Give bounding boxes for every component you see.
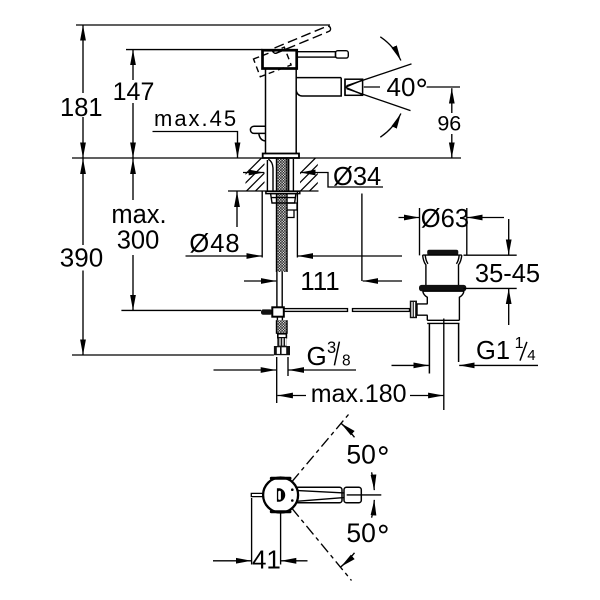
aerator axis lines	[364, 86, 460, 88]
50 arc lower	[341, 553, 355, 567]
waste rod branch	[417, 304, 428, 315]
svg-text:181: 181	[60, 94, 103, 122]
braided hose below nut	[277, 194, 288, 272]
hose end ref line	[72, 354, 274, 356]
hose connector below clamp	[277, 317, 282, 321]
111 extension line	[361, 194, 363, 282]
handle cap	[263, 50, 297, 68]
faucet base	[263, 154, 299, 159]
washer under deck	[266, 191, 300, 193]
svg-text:147: 147	[113, 78, 155, 106]
top view center line	[347, 494, 382, 496]
svg-text:max.45: max.45	[154, 106, 238, 131]
waste bottom rings	[427, 320, 459, 323]
dim G1 1/4	[392, 364, 429, 366]
horizontal pull rod right part	[353, 309, 410, 312]
faucet body left edge	[265, 69, 267, 154]
braided hose lower segment	[277, 320, 288, 334]
svg-text:50: 50	[346, 518, 375, 548]
spout	[296, 78, 341, 96]
waste rod knob	[410, 301, 417, 319]
dim 147	[132, 50, 134, 80]
top view body circle	[263, 478, 298, 513]
dim Ø48	[186, 255, 263, 257]
dim 96	[451, 88, 453, 113]
svg-text:4: 4	[527, 347, 535, 364]
rod clamp knob left	[261, 309, 272, 314]
reference line top (max raised lever height)	[76, 24, 330, 26]
horizontal pull rod left part	[284, 309, 348, 312]
hose thread adapter	[277, 338, 286, 346]
max300 ref line	[121, 309, 261, 311]
reference line handle top	[126, 49, 263, 51]
Ø48 extension lines	[262, 192, 297, 258]
top view lever arm taper	[298, 491, 344, 502]
top view spout	[297, 487, 342, 502]
svg-text:G: G	[307, 341, 327, 371]
svg-text:35-45: 35-45	[475, 260, 540, 288]
deck top line	[72, 157, 461, 159]
svg-text:50: 50	[346, 440, 375, 470]
braided hose in deck hole	[277, 158, 288, 190]
shank rod guide in hole	[267, 159, 273, 190]
deck bottom line	[228, 190, 319, 192]
dim max45 lower arrow	[236, 192, 238, 228]
top view cap chords	[271, 478, 290, 512]
aerator	[345, 79, 363, 95]
svg-text:Ø63: Ø63	[421, 205, 469, 233]
svg-text:111: 111	[300, 266, 340, 296]
waste center extension line	[443, 319, 445, 411]
dim max300	[132, 159, 134, 201]
waste tailpipe	[429, 323, 458, 373]
dim Ø63	[399, 217, 420, 219]
top view D slot	[278, 491, 281, 500]
svg-text:max.: max.	[111, 201, 166, 229]
svg-text:Ø34: Ø34	[333, 163, 381, 191]
G3/8 hex nut	[274, 346, 290, 355]
dim 35-45	[508, 219, 510, 255]
rod clamp block	[272, 307, 284, 316]
svg-text:1: 1	[515, 335, 524, 352]
waste rubber seal	[419, 285, 466, 291]
shank tube right in hole	[289, 159, 294, 191]
lever horizontal	[297, 52, 336, 57]
svg-text:390: 390	[60, 243, 103, 273]
aerator joint	[344, 79, 346, 95]
dim 111	[244, 280, 276, 282]
dim max45 leader	[153, 132, 238, 159]
top view rod stub left	[251, 493, 263, 496]
40 degree arc lower	[380, 114, 401, 138]
svg-text:Ø48: Ø48	[189, 230, 240, 258]
svg-text:96: 96	[437, 112, 461, 136]
Ø63 extension lines	[420, 208, 467, 255]
dim 390	[82, 159, 84, 246]
waste lower bowl	[423, 291, 464, 320]
spray line upper	[347, 64, 412, 86]
svg-text:40: 40	[387, 72, 416, 102]
svg-text:G1: G1	[476, 337, 510, 365]
dashed ray lower 50	[292, 508, 352, 580]
aerator cone lines	[345, 80, 362, 95]
outlet fitting	[288, 203, 298, 218]
top view lever D	[277, 488, 285, 502]
40 degree arc upper	[380, 37, 401, 61]
dim 181	[82, 25, 84, 93]
waste flange	[423, 255, 462, 285]
lever grip tip	[336, 51, 349, 58]
svg-text:3: 3	[327, 339, 336, 357]
deck hatching right	[282, 158, 343, 192]
dim G3/8	[214, 369, 277, 371]
top view dots	[291, 488, 294, 491]
svg-text:300: 300	[117, 227, 160, 255]
dim 41	[213, 560, 251, 562]
svg-text:41: 41	[252, 545, 281, 575]
pop-up waste stopper cap	[427, 250, 458, 255]
G3/8 extension lines	[277, 357, 288, 403]
dashed ray upper 50	[292, 415, 349, 482]
dim max180	[277, 395, 306, 397]
dim Ø34	[243, 172, 264, 174]
41 extension lines	[252, 498, 281, 565]
pop-up vertical rod	[277, 272, 282, 307]
spray line lower	[347, 89, 411, 111]
deck hatching left	[228, 158, 289, 192]
hose ferrule	[278, 334, 287, 338]
50 arc upper	[341, 423, 355, 437]
dashed handle cap (raised position)	[254, 47, 292, 77]
35-45 extension lines	[464, 255, 517, 288]
svg-text:8: 8	[342, 352, 351, 369]
faucet body right edge	[295, 69, 297, 154]
mounting nut	[271, 194, 296, 203]
dashed lever (raised position)	[272, 25, 331, 54]
pop-up rod knob	[250, 126, 265, 141]
top view lever grip	[344, 487, 361, 502]
svg-text:max.180: max.180	[311, 380, 407, 408]
